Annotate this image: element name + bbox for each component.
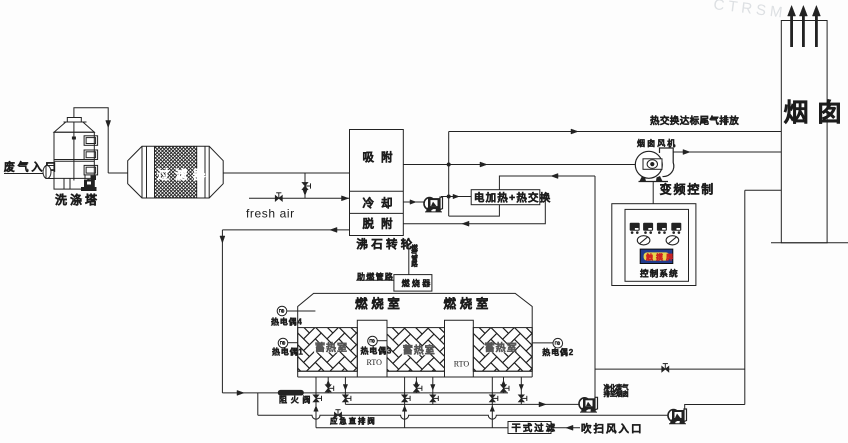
valve on fresh air pipe: [275, 195, 282, 201]
arrow into rotor cooling: [342, 196, 349, 201]
purge air inlet pipe: [551, 427, 580, 429]
svg-text:蓄热室: 蓄热室: [315, 341, 348, 354]
inlet manifold: [222, 392, 508, 394]
bed 1 outlet drop pipe: [344, 377, 346, 404]
heater top pipe from concentrate riser: [499, 176, 595, 190]
thermocouple TC4: [271, 306, 315, 327]
arrow down bed 2 outlet: [431, 385, 436, 391]
control panel 控制系统: [612, 204, 696, 286]
waste gas inlet pipe: [4, 173, 46, 175]
svg-text:蓄热室: 蓄热室: [403, 344, 436, 357]
arrow left into heater top: [551, 174, 558, 179]
svg-text:洗涤塔: 洗涤塔: [55, 192, 100, 207]
purified gas riser: [744, 190, 746, 404]
svg-text:烟囱: 烟囱: [784, 99, 848, 127]
arrow up bed 2 purge: [402, 406, 407, 412]
svg-text:沸石转轮: 沸石转轮: [356, 237, 415, 251]
bed 1 purge drop pipe: [315, 377, 317, 428]
heat storage bed 3 plenum: [473, 370, 532, 372]
arrow down on RTO feed pipe: [220, 236, 225, 243]
flame arrester 阻火阀: [278, 390, 304, 396]
desorption outlet pipe: [222, 229, 349, 231]
svg-text:热电偶2: 热电偶2: [542, 347, 574, 357]
arrow up bed 1 purge: [314, 406, 319, 412]
svg-text:燃烧室: 燃烧室: [355, 296, 404, 311]
bed 2 outlet drop pipe: [432, 377, 434, 404]
stack fan outlet pipe: [673, 151, 781, 153]
heat storage bed 2 hatch: [387, 328, 445, 372]
wire fan to control panel: [652, 182, 654, 204]
valve on bed 3 inlet drop: [501, 385, 507, 392]
pipe filter to rotor: [223, 172, 349, 174]
thermocouple TC1: [272, 338, 304, 357]
panel gauges: [637, 236, 650, 245]
adsorption outlet pipe to stack fan: [403, 164, 636, 166]
heat storage bed 1 hatch: [298, 328, 358, 372]
thermocouple TC2: [532, 338, 574, 356]
svg-text:燃烧器: 燃烧器: [402, 278, 433, 288]
svg-text:助燃管路: 助燃管路: [357, 272, 394, 282]
scrubber tower body 洗涤塔: [54, 132, 94, 189]
panel instruments: [630, 223, 640, 234]
purified gas pipe into chimney: [745, 189, 782, 191]
valve on bed 3 purge drop: [489, 395, 495, 402]
svg-text:触摸屏: 触摸屏: [645, 253, 676, 262]
scrubber spray pipe: [73, 122, 75, 181]
RTO tower 1 walls: [357, 320, 387, 377]
stack fan 烟囱风机: [635, 148, 674, 182]
touch screen 触摸屏: [640, 249, 673, 263]
arrow on inlet manifold: [237, 390, 244, 395]
svg-text:RTO: RTO: [454, 360, 470, 369]
chimney exhaust arrows: [790, 15, 793, 47]
svg-text:应急直排阀: 应急直排阀: [330, 416, 377, 426]
svg-text:RTO: RTO: [367, 358, 383, 367]
bed 2 inlet drop pipe: [415, 377, 417, 393]
valve on bed 2 inlet drop: [413, 385, 419, 392]
arrow down bed 1 outlet: [343, 385, 348, 391]
svg-text:fresh air: fresh air: [246, 207, 295, 221]
cooling circulation fan: [424, 197, 443, 212]
purge exhaust fan: [668, 409, 687, 424]
concentrate riser pipe: [594, 176, 596, 397]
purge air manifold: [316, 427, 508, 429]
arrow left on desorption outlet: [330, 227, 337, 232]
valve on bed 3 outlet drop: [518, 395, 524, 402]
arrow right on adsorption outlet: [480, 162, 487, 167]
arrow up bed 2 inlet: [414, 381, 419, 387]
chamber bottom line: [298, 376, 533, 378]
valve on bed 1 purge drop: [313, 395, 319, 402]
branch to emergency bypass: [257, 393, 259, 415]
gas pipe 燃气管路: [408, 243, 410, 274]
emergency bypass manifold: [258, 415, 668, 419]
heat storage bed 1 plenum: [298, 370, 358, 372]
crossover pipe with valve: [595, 368, 745, 370]
thermocouple TC3: [361, 336, 393, 355]
burner 燃烧器: [394, 275, 432, 292]
valve on crossover pipe: [662, 366, 669, 372]
svg-text:热电偶1: 热电偶1: [272, 347, 304, 357]
chimney base line: [771, 242, 848, 244]
valve on bed 2 outlet drop: [430, 395, 436, 402]
pipe down to RTO inlet manifold: [221, 230, 223, 393]
junction node: [447, 163, 451, 167]
arrow down on scrubber outlet: [106, 121, 111, 128]
arrow into heater: [453, 194, 459, 199]
branch pipe to fresh air line: [304, 173, 306, 198]
svg-text:过滤器: 过滤器: [157, 167, 211, 182]
fresh air pipe: [249, 197, 350, 199]
scrubber inlet nozzle: [43, 166, 51, 179]
bed 3 inlet drop pipe: [503, 377, 505, 393]
purge fan outlet pipe: [685, 405, 745, 409]
svg-text:冷却: 冷却: [363, 196, 400, 210]
heater bottom loop pipe: [449, 205, 500, 216]
RTO tower 2 walls: [445, 320, 474, 377]
svg-text:吹扫风入口: 吹扫风入口: [581, 422, 644, 435]
label 蓄热室 1: [314, 345, 340, 353]
filter media crosshatch: [95, 146, 326, 198]
zeolite rotor 沸石转轮: [350, 130, 404, 236]
arrow down bed 3 outlet: [519, 385, 524, 391]
arrow into dry filter: [566, 425, 573, 430]
desorption concentrate fan: [579, 397, 598, 412]
combustion-air pipe 助燃管路: [356, 279, 394, 281]
valve on bed 2 purge drop: [402, 395, 408, 402]
scrubber side box 1: [84, 136, 98, 146]
arrow on fan outlet: [683, 150, 690, 155]
svg-text:路: 路: [411, 259, 418, 268]
pipe fan to heater: [441, 196, 471, 198]
cooling outlet pipe: [403, 201, 424, 203]
arrow up bed 3 inlet: [501, 381, 506, 387]
heat storage bed 3 hatch: [473, 328, 532, 372]
svg-text:燃烧室: 燃烧室: [444, 296, 493, 311]
svg-text:热交换达标尾气排放: 热交换达标尾气排放: [650, 115, 739, 127]
svg-text:热电偶4: 热电偶4: [271, 317, 303, 327]
scrubber internal tray lines: [54, 159, 94, 161]
svg-text:干式过滤: 干式过滤: [512, 422, 558, 433]
exhaust header to chimney: [449, 131, 782, 133]
junction node: [447, 195, 451, 199]
arrow on cooling outlet: [410, 200, 416, 205]
arrow up bed 1 inlet: [326, 381, 331, 387]
arrow right on exhaust header: [571, 129, 578, 134]
chimney 烟囱: [781, 21, 827, 243]
arrow up bed 3 purge: [490, 406, 495, 412]
svg-text:烟囱风机: 烟囱风机: [637, 138, 677, 148]
scrubber circulation pump: [81, 175, 97, 191]
svg-text:脱附: 脱附: [363, 216, 400, 230]
svg-text:排至烟囱: 排至烟囱: [604, 389, 629, 398]
label 蓄热室 2: [402, 347, 428, 355]
electric heater + heat exchanger 电加热+热交换: [471, 190, 540, 205]
label 蓄热室 3: [484, 345, 510, 353]
arrow down on branch: [303, 190, 308, 196]
svg-text:热电偶3: 热电偶3: [361, 346, 393, 356]
bed 3 outlet drop pipe: [520, 377, 522, 404]
heat storage bed 2 plenum: [387, 370, 445, 372]
svg-text:蓄热室: 蓄热室: [485, 341, 518, 354]
scrubber sump dividers: [63, 178, 65, 189]
purified gas collection pipe: [345, 403, 579, 405]
scrubber side box 3: [84, 165, 98, 175]
svg-text:阻火阀: 阻火阀: [279, 394, 314, 404]
svg-text:吸附: 吸附: [363, 150, 400, 164]
combustion chamber shell: [298, 293, 533, 377]
svg-text:控制系统: 控制系统: [640, 269, 679, 279]
riser pipe to exhaust header: [448, 132, 450, 217]
bed 2 purge drop pipe: [404, 377, 406, 428]
valve on bed 1 outlet drop: [342, 395, 348, 402]
scrubber outlet pipe to filter: [74, 108, 108, 173]
valve on branch pipe: [302, 182, 308, 189]
valve on bed 1 inlet drop: [325, 385, 331, 392]
bed 1 inlet drop pipe: [327, 377, 329, 393]
dry filter 干式过滤: [508, 422, 551, 434]
heater outlet pipe to rotor desorption: [403, 197, 545, 224]
scrubber side box 2: [84, 150, 98, 160]
filter vessel 过滤器: [128, 146, 224, 198]
bed 3 purge drop pipe: [491, 377, 493, 428]
arrow to purge fan: [539, 402, 546, 407]
svg-text:变频控制: 变频控制: [660, 182, 716, 197]
valve 应急直排阀: [334, 412, 341, 418]
scrubber top cap: [67, 118, 81, 123]
arrow left into desorption: [462, 221, 469, 226]
